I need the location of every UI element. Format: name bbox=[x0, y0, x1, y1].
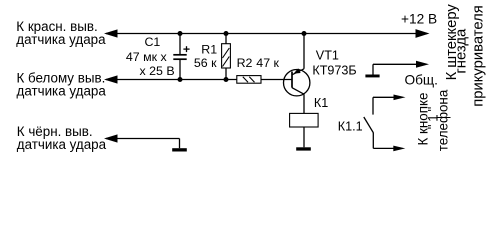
svg-text:47 к: 47 к bbox=[256, 56, 279, 70]
node: arrow to white sensor wire bbox=[104, 75, 118, 83]
wire: R2 to base of VT1 bbox=[261, 79, 292, 81]
svg-text:гнезда: гнезда bbox=[454, 28, 470, 74]
svg-text:R2: R2 bbox=[237, 56, 253, 70]
label: К штеккеру гнезда прикуривателя (vertical) bbox=[444, 4, 487, 107]
ground under K1 bbox=[296, 147, 311, 150]
node: arrow to +12V cigarette lighter plug bbox=[416, 29, 430, 38]
svg-text:R1: R1 bbox=[201, 42, 217, 56]
svg-text:датчика удара: датчика удара bbox=[17, 137, 107, 152]
wire: top +12V rail bbox=[106, 33, 427, 35]
svg-text:прикуривателя: прикуривателя bbox=[471, 5, 487, 106]
resistor R2 bbox=[237, 76, 261, 84]
resistor R1 bbox=[222, 34, 231, 80]
wire: Общ terminal bbox=[373, 64, 416, 74]
ground at black wire bbox=[172, 148, 187, 151]
capacitor C1 bbox=[173, 34, 189, 80]
ground at Общ terminal bbox=[365, 75, 379, 78]
node: junction dot C1 top bbox=[178, 31, 183, 36]
node: junction dot R1 top bbox=[224, 31, 229, 36]
svg-text:датчика удара: датчика удара bbox=[17, 84, 107, 99]
svg-text:датчика удара: датчика удара bbox=[16, 32, 106, 47]
transistor VT1 bbox=[284, 34, 310, 114]
svg-text:47 мк х: 47 мк х bbox=[126, 50, 168, 64]
node: arrow to red sensor wire bbox=[104, 29, 118, 37]
relay coil K1 bbox=[290, 113, 319, 147]
node: arrow contact bottom bbox=[393, 146, 405, 152]
svg-text:х 25 В: х 25 В bbox=[139, 64, 174, 78]
svg-text:56 к: 56 к bbox=[194, 56, 217, 70]
svg-text:+12 В: +12 В bbox=[401, 12, 437, 27]
node: junction dot emitter / +12V rail bbox=[302, 31, 307, 36]
node: junction dot R1 bottom bbox=[224, 77, 229, 82]
label: К кнопке "1" телефона (vertical) bbox=[416, 89, 451, 151]
node: arrow to black sensor wire bbox=[104, 134, 118, 142]
svg-text:Общ.: Общ. bbox=[404, 72, 438, 87]
node: junction dot C1 bottom bbox=[178, 77, 183, 82]
svg-text:К1.1: К1.1 bbox=[338, 120, 363, 134]
wire: middle rail to white sensor wire bbox=[106, 79, 237, 81]
svg-text:К1: К1 bbox=[314, 96, 328, 110]
node: arrow Общ to plug bbox=[416, 61, 429, 68]
relay contact K1.1 bbox=[364, 97, 394, 148]
svg-text:VT1: VT1 bbox=[316, 49, 339, 63]
node: arrow contact top bbox=[394, 95, 406, 101]
svg-text:С1: С1 bbox=[144, 35, 160, 49]
wire: black sensor wire to ground bbox=[106, 139, 180, 149]
svg-text:телефона: телефона bbox=[435, 89, 450, 151]
svg-text:КТ973Б: КТ973Б bbox=[312, 63, 356, 77]
